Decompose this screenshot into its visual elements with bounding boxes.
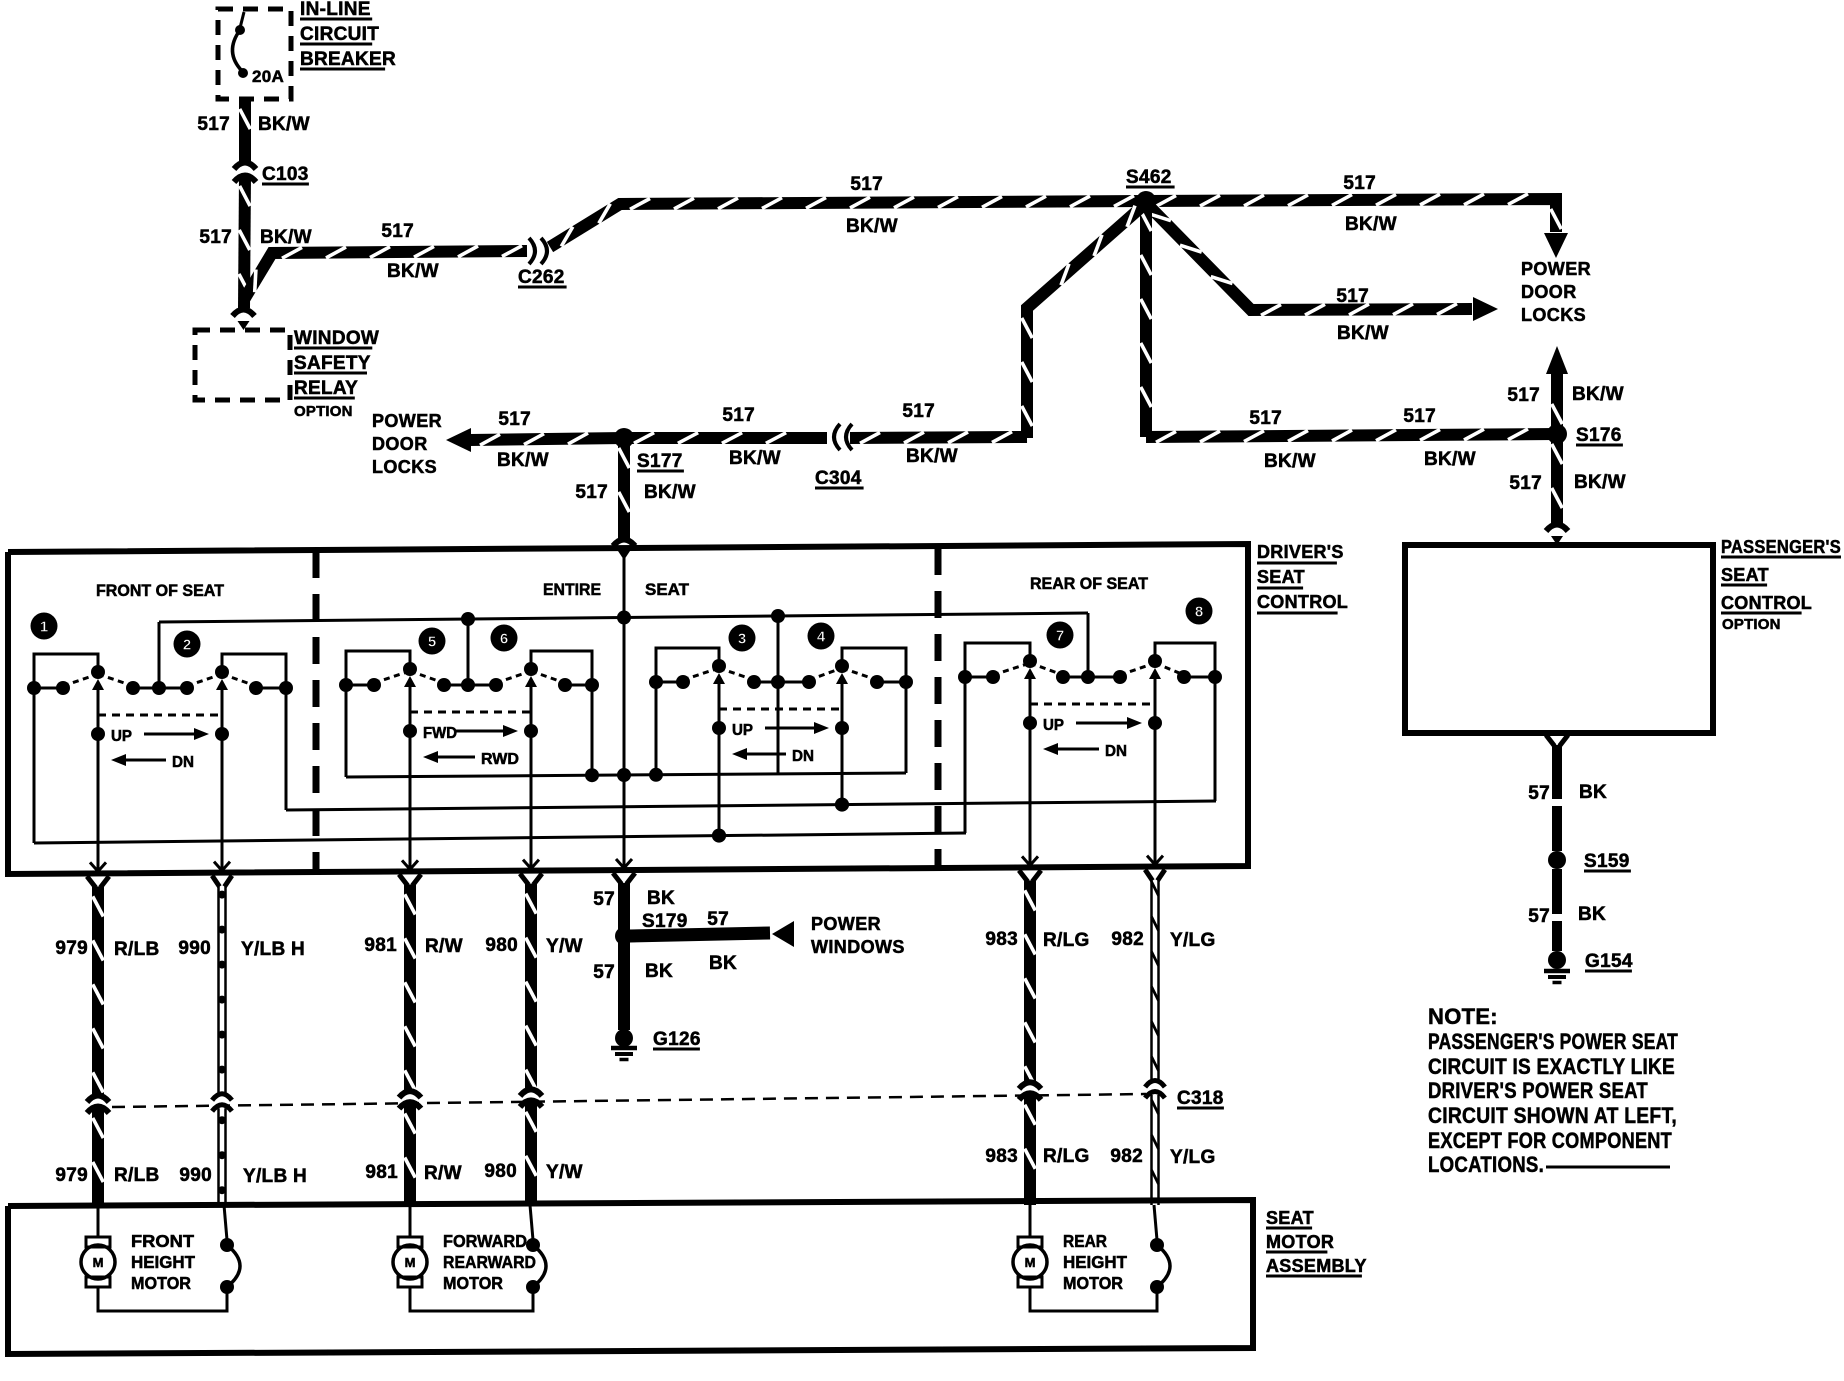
svg-text:980: 980 xyxy=(484,1161,517,1182)
svg-text:R/LG: R/LG xyxy=(1043,930,1090,951)
svg-text:979: 979 xyxy=(55,938,88,959)
svg-text:FRONT OF SEAT: FRONT OF SEAT xyxy=(96,581,225,600)
svg-text:MOTOR: MOTOR xyxy=(131,1273,191,1293)
svg-text:Y/LB H: Y/LB H xyxy=(241,939,305,960)
svg-text:7: 7 xyxy=(1056,628,1064,645)
svg-text:HEIGHT: HEIGHT xyxy=(1063,1252,1127,1272)
svg-text:G154: G154 xyxy=(1585,951,1633,972)
svg-text:982: 982 xyxy=(1111,929,1144,950)
svg-text:S177: S177 xyxy=(637,451,683,472)
svg-text:990: 990 xyxy=(179,1165,212,1186)
svg-text:4: 4 xyxy=(817,629,826,646)
svg-text:BK/W: BK/W xyxy=(1264,451,1316,472)
svg-text:R/W: R/W xyxy=(424,1163,462,1184)
svg-text:CIRCUIT SHOWN AT LEFT,: CIRCUIT SHOWN AT LEFT, xyxy=(1428,1103,1677,1128)
svg-text:57: 57 xyxy=(593,889,615,910)
svg-text:517: 517 xyxy=(1336,286,1369,307)
svg-text:BK/W: BK/W xyxy=(258,114,310,135)
svg-text:R/W: R/W xyxy=(425,936,463,957)
svg-text:ENTIRE: ENTIRE xyxy=(543,580,601,599)
svg-text:20A: 20A xyxy=(252,67,284,86)
svg-text:SEAT: SEAT xyxy=(1257,567,1305,587)
svg-text:MOTOR: MOTOR xyxy=(1266,1232,1334,1252)
svg-text:LOCATIONS.: LOCATIONS. xyxy=(1428,1152,1544,1177)
svg-text:517: 517 xyxy=(1249,408,1282,429)
svg-text:REAR: REAR xyxy=(1063,1231,1107,1251)
svg-text:6: 6 xyxy=(500,631,508,648)
svg-text:MOTOR: MOTOR xyxy=(443,1273,503,1293)
svg-text:UP: UP xyxy=(1043,717,1064,734)
svg-text:983: 983 xyxy=(985,929,1018,950)
svg-text:RWD: RWD xyxy=(481,751,519,768)
svg-text:FWD: FWD xyxy=(423,725,457,742)
svg-text:517: 517 xyxy=(1343,173,1376,194)
svg-text:R/LG: R/LG xyxy=(1043,1146,1090,1167)
svg-text:BK/W: BK/W xyxy=(846,216,898,237)
svg-text:UP: UP xyxy=(732,722,753,739)
svg-text:517: 517 xyxy=(381,221,414,242)
svg-text:981: 981 xyxy=(365,1162,398,1183)
svg-text:UP: UP xyxy=(111,728,132,745)
svg-text:BK: BK xyxy=(647,888,675,909)
svg-text:BK/W: BK/W xyxy=(260,227,312,248)
svg-text:R/LB: R/LB xyxy=(114,939,160,960)
svg-text:SEAT: SEAT xyxy=(645,580,690,599)
svg-text:LOCKS: LOCKS xyxy=(372,457,437,477)
svg-text:SAFETY: SAFETY xyxy=(294,353,371,374)
svg-text:981: 981 xyxy=(364,935,397,956)
svg-text:FORWARD: FORWARD xyxy=(443,1231,527,1251)
svg-text:RELAY: RELAY xyxy=(294,378,358,399)
svg-text:BK: BK xyxy=(709,953,737,974)
svg-text:517: 517 xyxy=(902,401,935,422)
svg-text:SEAT: SEAT xyxy=(1721,565,1769,585)
svg-text:BK/W: BK/W xyxy=(387,261,439,282)
svg-text:517: 517 xyxy=(1403,406,1436,427)
svg-text:BREAKER: BREAKER xyxy=(300,49,396,70)
svg-text:2: 2 xyxy=(183,637,191,654)
svg-text:BK/W: BK/W xyxy=(729,448,781,469)
svg-text:BK/W: BK/W xyxy=(906,446,958,467)
svg-text:CONTROL: CONTROL xyxy=(1721,593,1812,613)
svg-text:PASSENGER'S POWER SEAT: PASSENGER'S POWER SEAT xyxy=(1428,1029,1678,1054)
svg-text:LOCKS: LOCKS xyxy=(1521,305,1586,325)
svg-text:C304: C304 xyxy=(815,468,862,489)
svg-text:POWER: POWER xyxy=(1521,259,1591,279)
svg-text:BK/W: BK/W xyxy=(644,482,696,503)
svg-text:S176: S176 xyxy=(1576,425,1622,446)
svg-text:517: 517 xyxy=(197,114,230,135)
svg-text:EXCEPT FOR COMPONENT: EXCEPT FOR COMPONENT xyxy=(1428,1128,1672,1153)
svg-text:57: 57 xyxy=(1528,783,1550,804)
svg-text:BK: BK xyxy=(1578,904,1606,925)
svg-text:M: M xyxy=(405,1255,416,1270)
svg-text:5: 5 xyxy=(428,634,436,651)
svg-text:8: 8 xyxy=(1195,604,1203,621)
svg-text:517: 517 xyxy=(1509,473,1542,494)
svg-text:BK/W: BK/W xyxy=(1424,449,1476,470)
svg-text:DN: DN xyxy=(172,754,194,771)
svg-text:1: 1 xyxy=(40,619,48,636)
svg-text:POWER: POWER xyxy=(372,411,442,431)
svg-text:DN: DN xyxy=(1105,743,1127,760)
svg-text:S159: S159 xyxy=(1584,851,1630,872)
svg-text:CIRCUIT: CIRCUIT xyxy=(300,24,379,45)
svg-text:FRONT: FRONT xyxy=(131,1231,194,1251)
svg-text:BK: BK xyxy=(645,961,673,982)
svg-text:982: 982 xyxy=(1110,1146,1143,1167)
svg-text:517: 517 xyxy=(575,482,608,503)
svg-text:MOTOR: MOTOR xyxy=(1063,1273,1123,1293)
svg-text:517: 517 xyxy=(722,405,755,426)
svg-text:DN: DN xyxy=(792,748,814,765)
svg-text:M: M xyxy=(93,1255,104,1270)
svg-text:Y/LB H: Y/LB H xyxy=(243,1166,307,1187)
svg-text:CIRCUIT IS EXACTLY LIKE: CIRCUIT IS EXACTLY LIKE xyxy=(1428,1054,1675,1079)
svg-text:DOOR: DOOR xyxy=(372,434,428,454)
svg-text:DOOR: DOOR xyxy=(1521,282,1577,302)
svg-text:57: 57 xyxy=(707,909,729,930)
svg-text:C103: C103 xyxy=(262,164,309,185)
svg-text:BK/W: BK/W xyxy=(1574,472,1626,493)
svg-text:NOTE:: NOTE: xyxy=(1428,1004,1498,1029)
svg-text:REARWARD: REARWARD xyxy=(443,1252,536,1272)
svg-text:OPTION: OPTION xyxy=(1722,616,1781,633)
svg-text:M: M xyxy=(1025,1255,1036,1270)
svg-text:G126: G126 xyxy=(653,1029,701,1050)
svg-text:ASSEMBLY: ASSEMBLY xyxy=(1266,1256,1367,1276)
svg-text:517: 517 xyxy=(850,174,883,195)
svg-text:CONTROL: CONTROL xyxy=(1257,592,1348,612)
svg-text:517: 517 xyxy=(498,409,531,430)
svg-text:WINDOW: WINDOW xyxy=(294,328,379,349)
svg-text:Y/W: Y/W xyxy=(546,1162,583,1183)
svg-text:IN-LINE: IN-LINE xyxy=(300,0,371,20)
svg-text:BK/W: BK/W xyxy=(1345,214,1397,235)
svg-text:POWER: POWER xyxy=(811,914,881,934)
svg-text:979: 979 xyxy=(55,1165,88,1186)
svg-text:Y/LG: Y/LG xyxy=(1170,930,1216,951)
svg-text:3: 3 xyxy=(738,631,746,648)
svg-text:983: 983 xyxy=(985,1146,1018,1167)
svg-text:S462: S462 xyxy=(1126,167,1172,188)
svg-text:WINDOWS: WINDOWS xyxy=(811,937,905,957)
svg-text:REAR OF SEAT: REAR OF SEAT xyxy=(1030,574,1149,593)
svg-text:DRIVER'S: DRIVER'S xyxy=(1257,542,1344,562)
svg-text:517: 517 xyxy=(199,227,232,248)
svg-text:BK: BK xyxy=(1579,782,1607,803)
svg-text:C262: C262 xyxy=(518,267,565,288)
svg-text:990: 990 xyxy=(178,938,211,959)
svg-text:C318: C318 xyxy=(1177,1088,1224,1109)
svg-text:HEIGHT: HEIGHT xyxy=(131,1252,195,1272)
svg-text:DRIVER'S POWER SEAT: DRIVER'S POWER SEAT xyxy=(1428,1078,1648,1103)
svg-text:BK/W: BK/W xyxy=(1337,323,1389,344)
svg-text:PASSENGER'S: PASSENGER'S xyxy=(1721,537,1841,557)
svg-text:R/LB: R/LB xyxy=(114,1165,160,1186)
svg-text:517: 517 xyxy=(1507,385,1540,406)
svg-text:SEAT: SEAT xyxy=(1266,1208,1314,1228)
svg-text:BK/W: BK/W xyxy=(497,450,549,471)
svg-text:OPTION: OPTION xyxy=(294,403,353,420)
svg-text:Y/LG: Y/LG xyxy=(1170,1147,1216,1168)
svg-text:Y/W: Y/W xyxy=(546,936,583,957)
svg-text:980: 980 xyxy=(485,935,518,956)
svg-text:57: 57 xyxy=(1528,906,1550,927)
svg-text:BK/W: BK/W xyxy=(1572,384,1624,405)
svg-text:57: 57 xyxy=(593,962,615,983)
